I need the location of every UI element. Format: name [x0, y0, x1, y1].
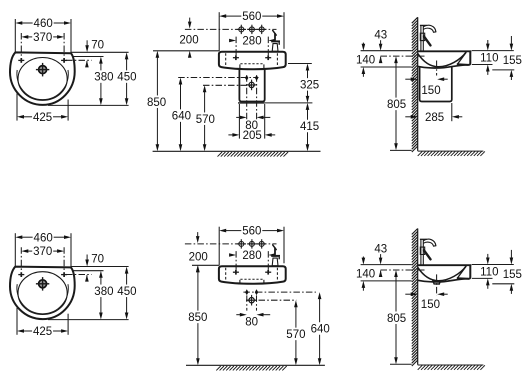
rim ext line right of basin: [472, 264, 514, 266]
dim 460: [15, 21, 22, 25]
ext line 560 right: [283, 12, 285, 49]
fixing centerline side: [381, 55, 426, 57]
dim 450: [125, 52, 129, 59]
washbasin plan outer outline: [10, 267, 75, 320]
ext line 425 left: [16, 94, 18, 121]
floor line: [153, 150, 321, 152]
inner rim ext line right: [74, 56, 104, 58]
dim 43 arrows: [379, 44, 383, 51]
dim 380: [99, 271, 103, 278]
dim 155 arrows: [510, 44, 514, 51]
svg-text:200: 200: [189, 252, 208, 264]
dim 570 row2: [294, 300, 298, 307]
front fixing hole left: [233, 271, 239, 273]
washbasin side rim line: [418, 50, 472, 52]
drain centerline row2: [246, 299, 296, 301]
fixing centerline side: [381, 269, 426, 271]
supply marker left: [245, 75, 248, 81]
dim 70 arrows: [85, 260, 89, 267]
floor surface line side: [418, 150, 484, 152]
wall hatching: [412, 17, 418, 152]
svg-text:70: 70: [91, 254, 104, 266]
dim 155 bottom ext line: [492, 283, 514, 285]
svg-text:370: 370: [33, 246, 52, 258]
shell bottom ext line left: [361, 280, 412, 282]
inner rim ext line right: [74, 270, 104, 272]
tap hole crosshair 3: [259, 241, 264, 246]
ext line 205 left: [238, 104, 240, 139]
svg-text:205: 205: [243, 130, 262, 142]
plan mid silhouette arc (425 width): [17, 70, 68, 100]
svg-text:43: 43: [374, 30, 387, 42]
plan faucet hole crosshair: [39, 280, 47, 288]
ext centerline 280 right: [267, 37, 269, 56]
tap centerline: [185, 243, 277, 245]
dim 110 bottom ext line: [472, 64, 493, 66]
pedestal base line: [238, 102, 265, 104]
dim 43 arrows: [379, 258, 383, 265]
dim 560: [219, 14, 226, 18]
supply marker right: [255, 75, 258, 81]
tap hole crosshair 2: [249, 27, 254, 32]
dim 80 arrows: [240, 116, 247, 120]
svg-text:285: 285: [425, 112, 444, 124]
svg-text:850: 850: [188, 312, 207, 324]
washbasin side front lip: [457, 265, 471, 279]
ext centerline 280 right: [267, 251, 269, 270]
front fixing hole right: [265, 271, 271, 273]
front body inner tangent left (hidden): [225, 53, 227, 67]
svg-text:450: 450: [117, 286, 136, 298]
ext centerline 370 right: [63, 33, 65, 58]
fixing centerline ext right: [66, 274, 92, 276]
washbasin side shell bottom: [418, 279, 469, 282]
ext centerline 370 right: [63, 247, 65, 272]
semi-pedestal front outline: [239, 69, 264, 101]
dim 450: [125, 267, 129, 274]
svg-text:570: 570: [286, 329, 305, 341]
svg-text:110: 110: [480, 52, 498, 64]
svg-text:805: 805: [387, 99, 406, 111]
dim 150 arrows row1: [411, 77, 418, 81]
svg-text:380: 380: [94, 72, 113, 84]
rim ext line right of basin: [472, 50, 514, 52]
floor hatching side: [418, 151, 485, 156]
dim 570: [203, 85, 207, 92]
washbasin side bowl curve: [418, 266, 467, 281]
dim 150 arrows row2: [411, 292, 418, 296]
svg-text:43: 43: [374, 244, 387, 256]
wall hatching: [412, 229, 418, 367]
floor hatching row2: [216, 366, 286, 370]
svg-text:640: 640: [172, 111, 191, 123]
dim 155 bottom ext line: [492, 69, 514, 71]
plan fixing hole right: [61, 274, 67, 276]
dim 640: [179, 78, 183, 85]
ext line 425 right: [67, 100, 69, 121]
floor surface line side: [418, 364, 484, 366]
ext centerline 370 left: [20, 33, 22, 58]
dim 110 bottom ext line: [472, 277, 493, 279]
wall face line: [417, 17, 419, 151]
dim 140 arrows: [362, 44, 366, 51]
dim 805 baseline: [390, 363, 412, 365]
dim 560: [219, 229, 226, 233]
dim 425: [17, 115, 24, 119]
semi-pedestal side outline: [420, 67, 452, 102]
ext line 560 right: [283, 227, 285, 264]
fixing centerline ext right: [66, 59, 92, 61]
dim 280 right arrow: [268, 39, 275, 43]
dim 285 arrows: [411, 115, 418, 119]
bottom ext line right: [48, 104, 129, 106]
floor hatching side: [418, 365, 485, 370]
dim 850 row2: [196, 265, 200, 272]
svg-text:200: 200: [179, 34, 198, 46]
washbasin front body outline: [219, 266, 286, 284]
overflow recess outline row2: [239, 280, 241, 283]
dim 805: [394, 56, 398, 63]
svg-text:460: 460: [34, 232, 53, 244]
dim 425: [17, 329, 24, 333]
rim ext line left: [153, 50, 219, 52]
tap hole crosshair 2: [249, 241, 254, 246]
dim 325: [306, 64, 310, 71]
rim ext line left of wall: [361, 264, 412, 266]
rim ext line left of wall: [361, 50, 412, 52]
ext line 560 left: [218, 227, 220, 266]
ext line 425 right: [67, 314, 69, 335]
basin bottom ext line right: [288, 63, 312, 65]
dim 805: [394, 270, 398, 277]
plan mid silhouette arc (425 width): [17, 284, 68, 314]
svg-text:70: 70: [91, 39, 104, 51]
drain crosshair row2: [249, 298, 254, 303]
plan inner bowl: [18, 272, 67, 315]
dim 280 left arrow: [229, 253, 236, 257]
ext line 460 left: [14, 19, 16, 52]
tap hole crosshair 3: [259, 27, 264, 32]
supply centerline row2: [243, 291, 316, 293]
front body inner tangent right (hidden): [276, 268, 278, 282]
dim 200 arrows row2: [196, 236, 200, 243]
plan faucet hole crosshair: [39, 66, 47, 74]
tap centerline: [185, 28, 277, 30]
ext centerline 370 left: [20, 247, 22, 272]
svg-text:140: 140: [356, 55, 375, 67]
tap hole crosshair 1: [239, 241, 244, 246]
svg-text:110: 110: [480, 266, 498, 278]
dim 110 arrows: [486, 258, 490, 265]
supply centerline horizontal: [178, 77, 258, 79]
washbasin front body outline: [219, 52, 286, 69]
svg-text:370: 370: [33, 32, 52, 44]
rim ext line right: [71, 266, 129, 268]
washbasin side lip inner edge: [457, 52, 466, 64]
front body inner tangent right (hidden): [276, 53, 278, 67]
svg-text:80: 80: [245, 317, 258, 329]
ext line 460 right: [70, 233, 72, 267]
svg-text:640: 640: [311, 324, 330, 336]
supply marker left row2: [245, 289, 248, 295]
mixer tap icon side: [421, 239, 423, 264]
svg-text:150: 150: [421, 299, 440, 311]
washbasin side rim line: [418, 264, 472, 266]
front fixing hole left: [233, 57, 239, 59]
dim 155 arrows: [510, 258, 514, 265]
bottom ext line right: [48, 319, 129, 321]
svg-text:425: 425: [33, 326, 52, 338]
svg-text:150: 150: [421, 85, 440, 97]
ext line 205 right: [264, 104, 266, 139]
dim 140 arrows: [362, 258, 366, 265]
dim 805 baseline: [390, 149, 412, 151]
dim 380: [99, 57, 103, 64]
svg-text:325: 325: [300, 80, 319, 92]
drain centerline side: [436, 61, 438, 76]
svg-text:805: 805: [387, 313, 406, 325]
ext line 460 right: [70, 19, 72, 53]
mixer tap icon side: [421, 26, 423, 51]
ext centerline 280 left: [235, 251, 237, 270]
dim 370: [21, 249, 28, 253]
supply line vertical left: [246, 75, 248, 119]
washbasin side shell bottom: [418, 65, 469, 68]
floor line row2: [186, 364, 325, 366]
dim 280 left arrow: [229, 39, 236, 43]
mixer tap icon front: [273, 30, 277, 35]
drain centerline horizontal: [203, 84, 254, 86]
shell bottom ext line left: [361, 66, 412, 68]
wall face line: [417, 229, 419, 365]
overflow recess outline row1: [239, 64, 241, 68]
plan inner bowl: [18, 58, 67, 101]
drain centerline side: [436, 274, 438, 295]
dim 640 row2: [318, 292, 322, 299]
svg-text:560: 560: [242, 226, 261, 238]
svg-text:560: 560: [242, 11, 261, 23]
dim 415: [306, 103, 310, 110]
dim 460: [15, 235, 22, 239]
pedestal bottom ext line right: [265, 102, 313, 104]
supply vertical left row2: [246, 295, 248, 310]
dim 370: [21, 35, 28, 39]
ext line 460 left: [14, 233, 16, 266]
rim ext line left row2: [192, 264, 219, 266]
supply marker right row2: [255, 289, 258, 295]
svg-text:155: 155: [503, 269, 522, 281]
washbasin side front lip: [457, 51, 471, 65]
plan fixing hole right: [61, 59, 67, 61]
floor hatching: [218, 152, 289, 157]
dim 110 arrows: [486, 44, 490, 51]
rim ext line right: [71, 51, 129, 53]
ext line 425 left: [16, 308, 18, 335]
svg-text:450: 450: [117, 72, 136, 84]
washbasin plan outer outline: [10, 52, 75, 105]
plan fixing hole left: [18, 274, 24, 276]
supply vertical right row2: [256, 295, 258, 310]
drain outlet stub side: [433, 281, 440, 284]
tap hole crosshair 1: [239, 27, 244, 32]
svg-text:415: 415: [300, 121, 319, 133]
svg-text:850: 850: [147, 97, 166, 109]
dim 200 arrows: [188, 22, 192, 29]
dim 205 arrows: [232, 133, 239, 137]
svg-text:460: 460: [34, 18, 53, 30]
svg-text:280: 280: [242, 250, 261, 262]
front fixing hole right: [265, 57, 271, 59]
washbasin side bowl curve: [418, 52, 467, 67]
supply line vertical right: [256, 75, 258, 119]
svg-text:380: 380: [94, 286, 113, 298]
mixer tap icon front: [273, 245, 277, 250]
front body inner tangent left (hidden): [225, 268, 227, 282]
svg-text:425: 425: [33, 112, 52, 124]
dim 80 arrows row2: [240, 313, 247, 317]
drain crosshair: [249, 82, 254, 87]
dim 850: [156, 51, 160, 58]
svg-text:570: 570: [196, 114, 215, 126]
svg-text:140: 140: [356, 268, 375, 280]
ext centerline 280 left: [235, 37, 237, 56]
dim 70 arrows: [85, 45, 89, 52]
dim 280 right arrow: [268, 253, 275, 257]
svg-text:155: 155: [503, 55, 522, 67]
ext line 560 left: [218, 12, 220, 51]
svg-text:280: 280: [242, 36, 261, 48]
pedestal ext line right: [451, 103, 453, 121]
plan fixing hole left: [18, 59, 24, 61]
washbasin side lip inner edge: [457, 266, 466, 278]
